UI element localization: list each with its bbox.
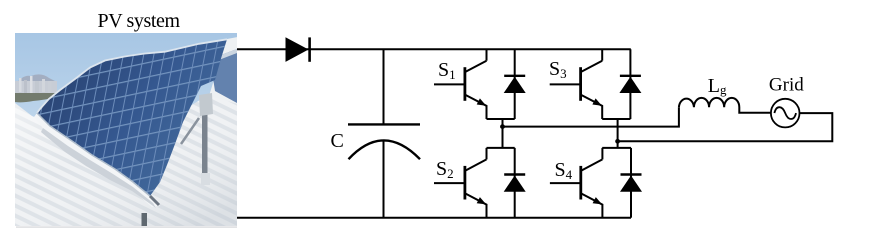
node: right leg return junction	[615, 139, 620, 144]
wire: DC bottom bus	[237, 217, 631, 219]
white patch right of panel	[209, 37, 238, 104]
wire: grid return to right leg midpoint	[618, 113, 833, 141]
trees	[15, 93, 57, 102]
transistor S1	[434, 49, 487, 119]
wire: left leg mid stub	[502, 119, 504, 148]
wire: inverter output to inductor	[503, 107, 679, 126]
capacitor C	[348, 49, 420, 218]
svg-text:Grid: Grid	[769, 75, 804, 96]
second row panel	[210, 49, 237, 103]
inductor Lg	[679, 98, 771, 113]
node: left leg output junction	[500, 124, 505, 129]
diode D1	[504, 49, 526, 119]
diode D (series blocking diode)	[286, 37, 310, 62]
diode D3	[619, 49, 641, 119]
panel bottom edge frame	[37, 113, 150, 196]
pole and bracket	[202, 95, 208, 180]
wire: DC top bus	[237, 48, 631, 50]
diode D4	[620, 148, 642, 218]
PV panel photo	[15, 33, 238, 226]
wire: right leg mid stub	[617, 119, 619, 148]
photo drop shadow	[16, 226, 237, 228]
main panel	[37, 39, 227, 196]
AC source Grid	[771, 99, 800, 128]
wire: S1 emitter to D1 anode	[487, 118, 515, 120]
svg-text:PV system: PV system	[98, 10, 181, 32]
transistor S4	[550, 148, 603, 218]
transistor S2	[434, 148, 487, 218]
wire: S4 collector to D4 cathode	[602, 147, 631, 149]
panel top edge frame	[37, 39, 227, 113]
mountains	[15, 74, 57, 89]
city	[15, 81, 57, 94]
wire: S2 collector to D2 cathode	[487, 147, 515, 149]
wire: S3 emitter to D3 anode	[602, 118, 630, 120]
roof	[15, 93, 238, 226]
bright frame strip under panel bottom edge	[34, 113, 160, 207]
diode D2	[504, 148, 526, 218]
transistor S3	[550, 49, 603, 119]
svg-text:C: C	[331, 130, 344, 152]
